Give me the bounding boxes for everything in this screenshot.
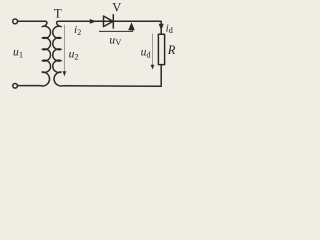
transformer T secondary coil (with bottom wire to bottom-right corner) bbox=[53, 21, 161, 86]
current arrow id head bbox=[159, 24, 164, 31]
svg-text:R: R bbox=[167, 43, 176, 57]
svg-text:d: d bbox=[169, 25, 174, 35]
svg-text:2: 2 bbox=[77, 28, 81, 37]
svg-text:V: V bbox=[112, 0, 121, 14]
svg-text:1: 1 bbox=[19, 49, 23, 59]
voltage arrow ud (thin line and head) bbox=[152, 34, 154, 66]
wire: secondary top lead to diode, on to top-right corner, down to resistor top bbox=[59, 21, 162, 34]
transformer T primary coil (with wire from top-left terminal and wire to bottom-left terminal) bbox=[18, 21, 51, 86]
svg-text:2: 2 bbox=[74, 52, 78, 62]
svg-text:V: V bbox=[115, 37, 122, 47]
resistor R body bbox=[158, 34, 164, 64]
diode V triangle bbox=[104, 16, 113, 27]
wire: resistor bottom to bottom-right corner bbox=[160, 65, 162, 87]
voltage arrow u2 (thin line and head) bbox=[63, 25, 65, 72]
terminal top-left bbox=[13, 19, 18, 24]
voltage arrow uV (line and head) bbox=[99, 28, 133, 31]
terminal bottom-left bbox=[13, 84, 18, 89]
svg-text:d: d bbox=[146, 50, 151, 60]
svg-text:T: T bbox=[54, 5, 62, 20]
diode V cathode bar bbox=[112, 15, 114, 28]
current arrow i2 head bbox=[90, 19, 97, 24]
paper background bbox=[0, 0, 178, 94]
